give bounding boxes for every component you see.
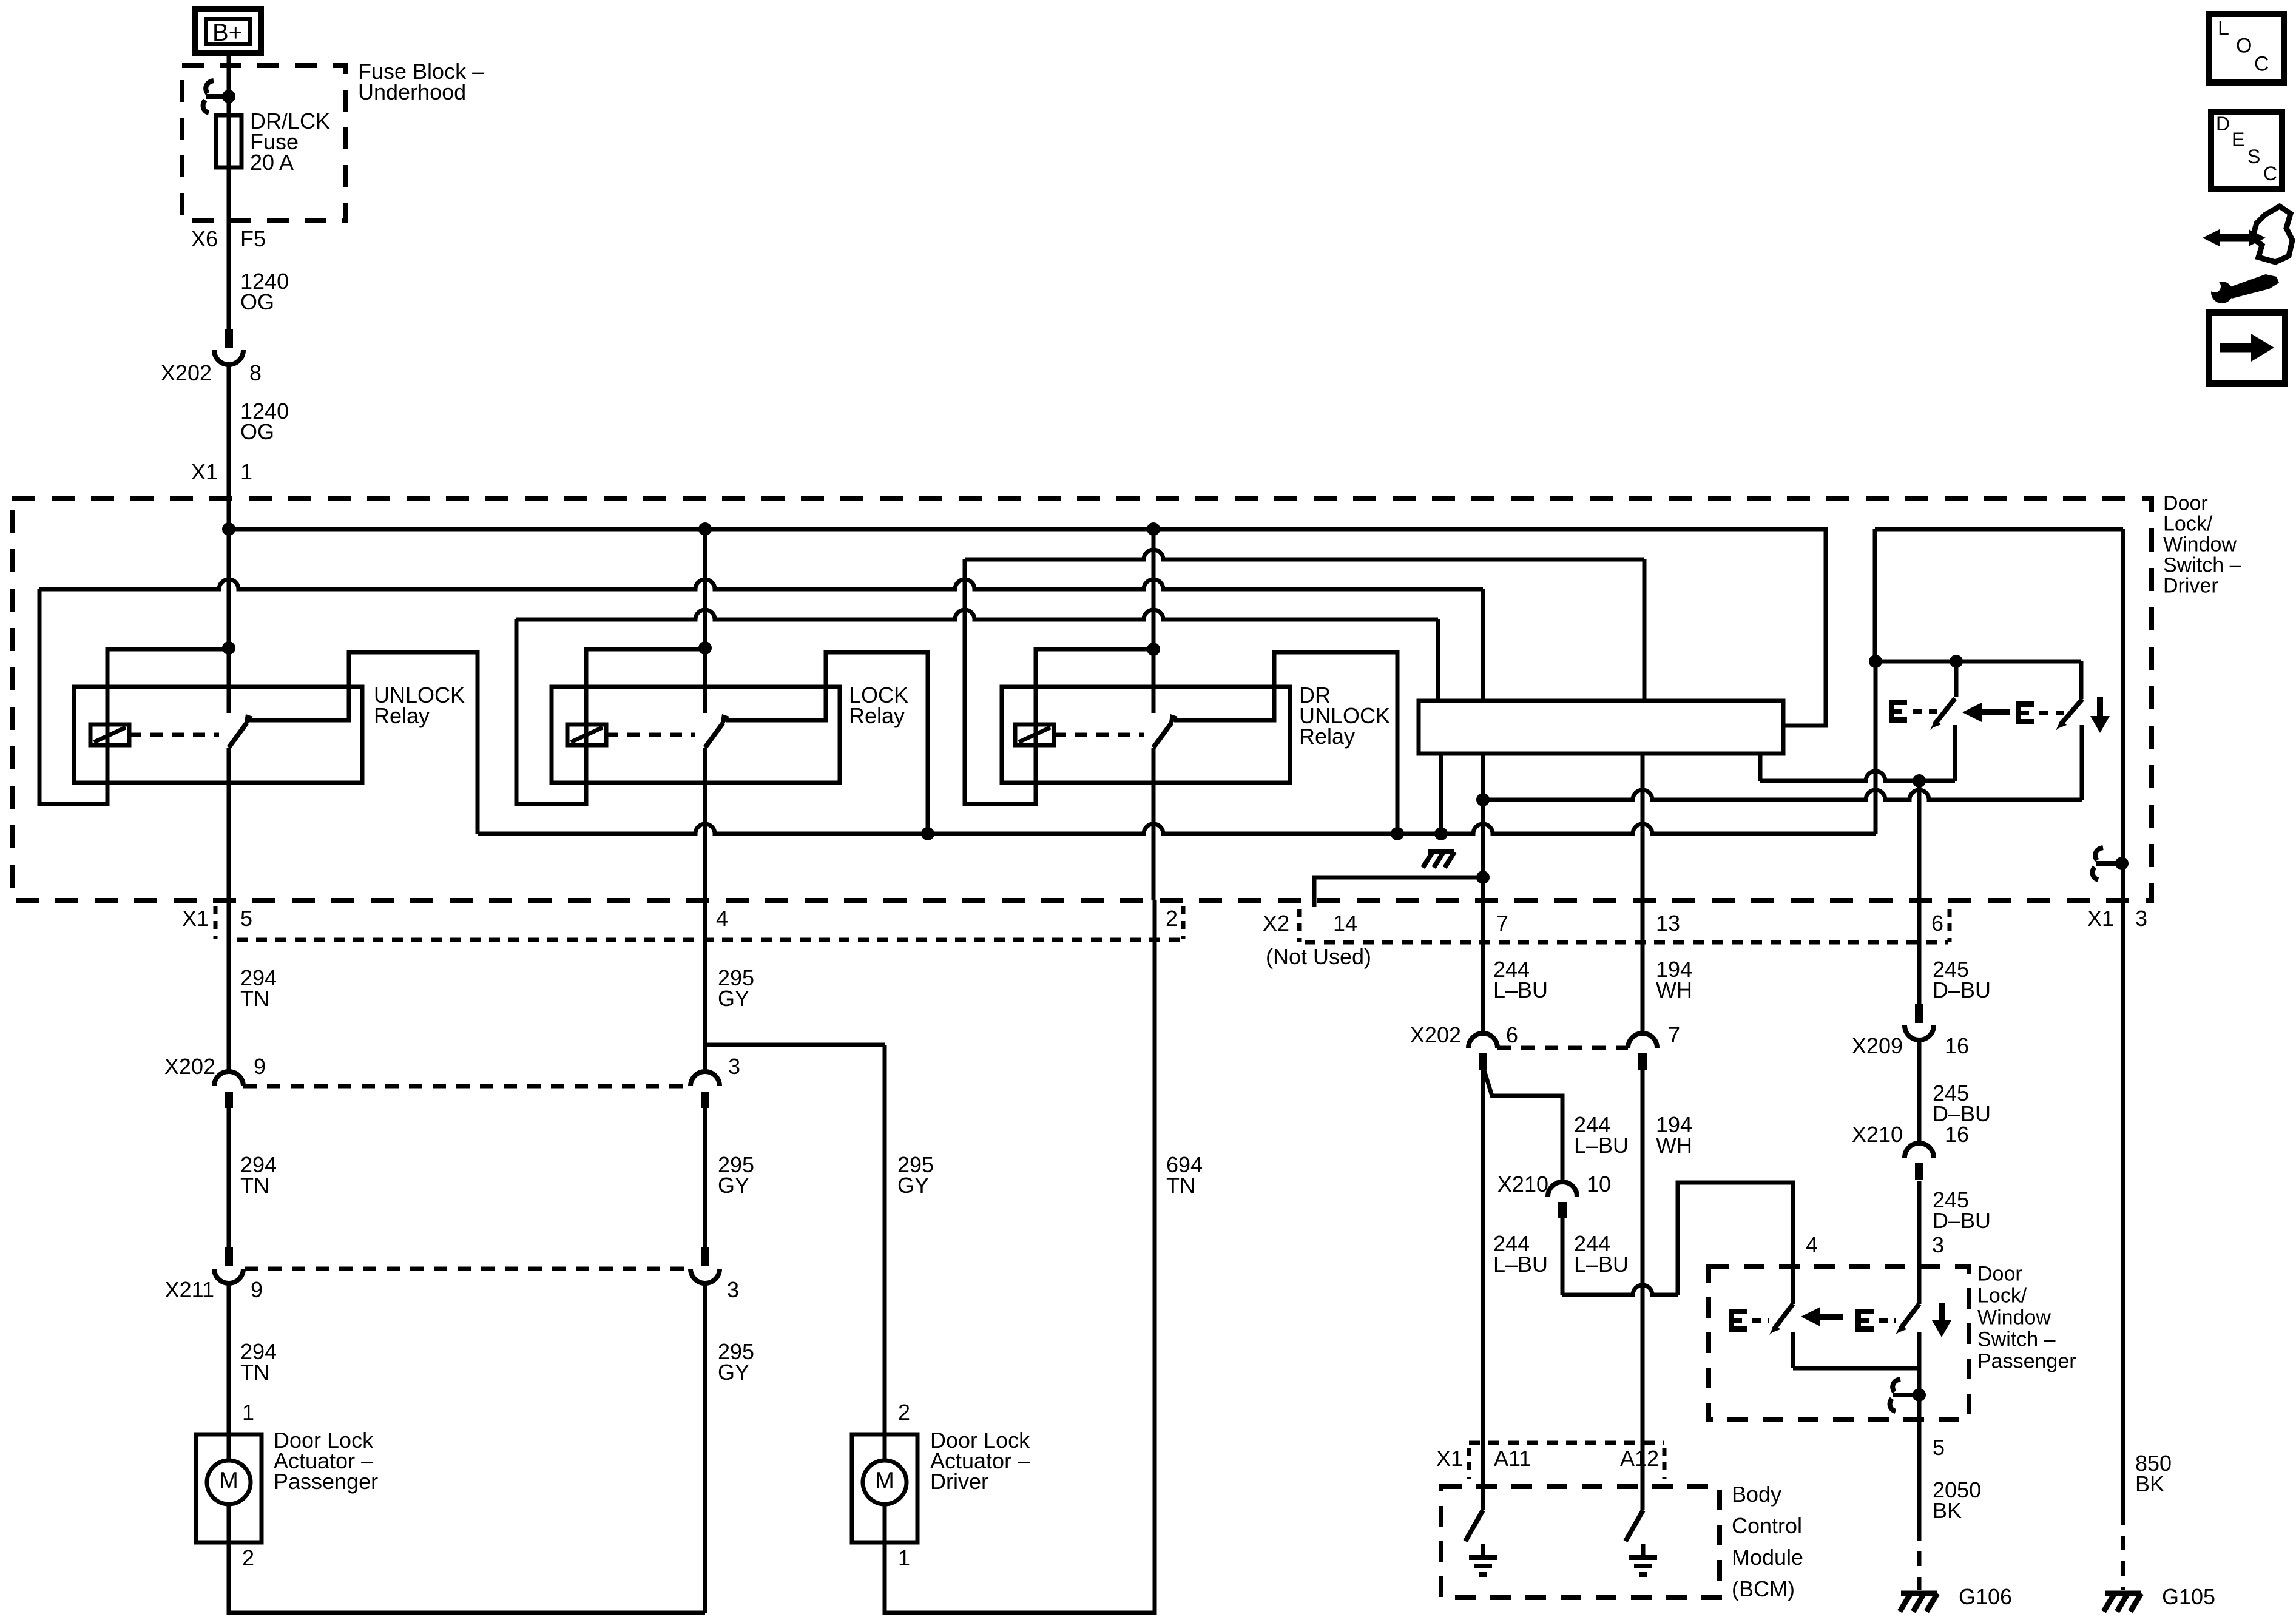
svg-text:Lock/: Lock/	[2163, 512, 2213, 535]
svg-text:X210: X210	[1852, 1122, 1903, 1147]
svg-text:Relay: Relay	[374, 703, 430, 728]
svg-text:Relay: Relay	[1299, 724, 1355, 749]
svg-text:5: 5	[1933, 1435, 1945, 1460]
svg-text:F5: F5	[240, 226, 266, 251]
svg-text:2: 2	[1166, 906, 1178, 931]
svg-text:(Not Used): (Not Used)	[1266, 944, 1371, 969]
svg-text:6: 6	[1931, 911, 1943, 936]
svg-text:O: O	[2236, 34, 2252, 57]
svg-text:X202: X202	[164, 1054, 215, 1079]
svg-text:X6: X6	[191, 226, 218, 251]
svg-text:3: 3	[2135, 906, 2147, 931]
svg-text:Door: Door	[2163, 491, 2208, 515]
svg-text:Switch –: Switch –	[2163, 553, 2241, 576]
svg-text:Module: Module	[1732, 1545, 1803, 1570]
svg-text:Driver: Driver	[2163, 574, 2218, 597]
svg-text:L–BU: L–BU	[1574, 1252, 1629, 1277]
svg-text:GY: GY	[718, 986, 749, 1011]
svg-text:OG: OG	[240, 289, 274, 314]
svg-text:Relay: Relay	[849, 703, 905, 728]
svg-text:TN: TN	[1166, 1173, 1195, 1198]
svg-text:OG: OG	[240, 419, 274, 444]
svg-text:2: 2	[898, 1400, 910, 1425]
svg-text:X202: X202	[161, 360, 212, 385]
svg-text:S: S	[2247, 146, 2260, 167]
svg-text:L–BU: L–BU	[1574, 1133, 1629, 1158]
svg-text:Underhood: Underhood	[358, 79, 466, 104]
svg-text:1: 1	[242, 1400, 254, 1425]
svg-text:Driver: Driver	[930, 1469, 988, 1494]
svg-text:M: M	[875, 1468, 894, 1493]
svg-text:(BCM): (BCM)	[1732, 1576, 1795, 1601]
svg-text:M: M	[219, 1468, 238, 1493]
svg-text:L: L	[2218, 16, 2229, 39]
svg-text:D–BU: D–BU	[1933, 1208, 1991, 1233]
svg-text:3: 3	[728, 1054, 740, 1079]
svg-text:D: D	[2216, 113, 2230, 135]
svg-text:7: 7	[1668, 1022, 1680, 1047]
svg-text:A11: A11	[1494, 1446, 1531, 1471]
svg-text:D–BU: D–BU	[1933, 977, 1991, 1002]
svg-text:7: 7	[1496, 911, 1508, 936]
svg-text:8: 8	[249, 360, 262, 385]
svg-text:X1: X1	[1436, 1446, 1463, 1471]
svg-text:20 A: 20 A	[250, 150, 294, 175]
svg-text:GY: GY	[718, 1360, 749, 1385]
svg-text:4: 4	[1806, 1232, 1818, 1257]
svg-text:Switch –: Switch –	[1977, 1328, 2056, 1351]
svg-text:GY: GY	[718, 1173, 749, 1198]
svg-text:4: 4	[716, 906, 728, 931]
svg-text:16: 16	[1945, 1122, 1969, 1147]
svg-text:1: 1	[240, 459, 252, 484]
svg-text:TN: TN	[240, 1360, 269, 1385]
svg-text:14: 14	[1333, 911, 1357, 936]
svg-text:C: C	[2254, 52, 2269, 75]
svg-text:Window: Window	[1977, 1306, 2051, 1329]
svg-text:BK: BK	[1933, 1498, 1962, 1523]
svg-text:16: 16	[1945, 1033, 1969, 1058]
svg-text:G105: G105	[2162, 1584, 2215, 1609]
svg-text:X202: X202	[1410, 1022, 1461, 1047]
svg-text:B+: B+	[212, 19, 243, 46]
svg-text:9: 9	[251, 1277, 263, 1302]
svg-text:X1: X1	[191, 459, 218, 484]
svg-text:X211: X211	[165, 1277, 214, 1302]
svg-text:2: 2	[242, 1545, 254, 1570]
svg-text:TN: TN	[240, 986, 269, 1011]
svg-text:1: 1	[898, 1545, 910, 1570]
svg-text:Passenger: Passenger	[274, 1469, 378, 1494]
svg-text:L–BU: L–BU	[1493, 977, 1548, 1002]
svg-text:GY: GY	[897, 1173, 929, 1198]
svg-text:10: 10	[1587, 1172, 1611, 1197]
svg-text:WH: WH	[1656, 977, 1692, 1002]
svg-text:X210: X210	[1497, 1172, 1548, 1197]
svg-text:Passenger: Passenger	[1977, 1349, 2076, 1372]
svg-text:C: C	[2263, 163, 2277, 184]
svg-text:13: 13	[1656, 911, 1680, 936]
svg-text:X2: X2	[1263, 911, 1289, 936]
svg-text:3: 3	[1932, 1232, 1944, 1257]
svg-text:Lock/: Lock/	[1977, 1284, 2027, 1307]
svg-text:Control: Control	[1732, 1513, 1802, 1538]
svg-text:9: 9	[254, 1054, 266, 1079]
svg-text:TN: TN	[240, 1173, 269, 1198]
svg-text:6: 6	[1506, 1022, 1518, 1047]
svg-text:X1: X1	[2087, 906, 2114, 931]
svg-text:X1: X1	[182, 906, 209, 931]
svg-text:Window: Window	[2163, 533, 2237, 556]
svg-text:A12: A12	[1620, 1446, 1659, 1471]
svg-text:G106: G106	[1959, 1584, 2012, 1609]
svg-text:BK: BK	[2135, 1471, 2164, 1496]
svg-text:L–BU: L–BU	[1493, 1252, 1548, 1277]
svg-text:3: 3	[727, 1277, 739, 1302]
svg-text:5: 5	[240, 906, 252, 931]
svg-text:Body: Body	[1732, 1482, 1781, 1507]
svg-text:WH: WH	[1656, 1133, 1692, 1158]
svg-text:X209: X209	[1852, 1033, 1903, 1058]
svg-text:E: E	[2232, 129, 2244, 150]
svg-text:Door: Door	[1977, 1262, 2022, 1285]
